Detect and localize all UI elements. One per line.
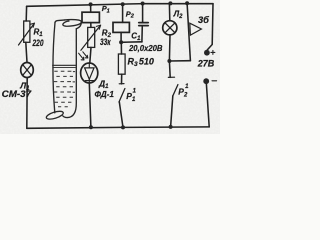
resistor R1 body bbox=[24, 21, 30, 42]
photodiode D1 bbox=[81, 63, 98, 83]
wire node to external arrow line bbox=[169, 60, 190, 62]
resistor R1 arrow bbox=[19, 24, 34, 45]
wire R1 to lamp L1 bbox=[26, 42, 27, 62]
wire P2 coil to node bbox=[120, 32, 122, 42]
node dot D1 bottom bbox=[89, 125, 93, 129]
svg-text:СМ-37: СМ-37 bbox=[2, 89, 32, 99]
node dot external branch on top bus bbox=[185, 1, 189, 5]
wire P1 coil to R2 bbox=[90, 23, 92, 28]
wire junction to R3 bbox=[120, 42, 122, 54]
wire top bus bbox=[27, 4, 213, 7]
resistor R2 arrow bbox=[81, 26, 100, 50]
terminal + 27V bbox=[204, 50, 210, 56]
node dot P1.1 bottom bbox=[121, 125, 125, 129]
external connection arrow 3b bbox=[190, 23, 202, 35]
relay contact P2.1 blade bbox=[173, 85, 178, 97]
relay contact P1.1 blade bbox=[119, 89, 125, 103]
wire contact P2.1 to bottom bus bbox=[171, 96, 173, 127]
node dot L2/P2.1 junction bbox=[167, 59, 171, 63]
resistor R3 body bbox=[118, 54, 125, 74]
node dot above C1 bbox=[141, 2, 145, 6]
node dot above relay coil P1 bbox=[89, 2, 93, 6]
liquid surface bbox=[53, 64, 76, 66]
paper grain bbox=[0, 0, 220, 134]
capacitor C1 bbox=[139, 22, 148, 24]
lamp L2 bbox=[163, 21, 177, 35]
svg-text:20,0х20В: 20,0х20В bbox=[128, 43, 162, 53]
wire to C1 bbox=[142, 4, 144, 23]
svg-text:ФД-1: ФД-1 bbox=[95, 89, 115, 99]
wire - terminal to bottom bus bbox=[206, 84, 209, 127]
resistor R2 body bbox=[88, 27, 95, 47]
svg-text:220: 220 bbox=[32, 38, 44, 48]
wire lamp L2 to node bbox=[168, 35, 171, 61]
node dot above relay coil P2 bbox=[121, 2, 125, 6]
relay coil P2 bbox=[113, 22, 129, 32]
vessel with liquid bbox=[45, 20, 81, 121]
wire right border to + terminal bbox=[207, 4, 213, 50]
terminal - bbox=[203, 78, 209, 84]
wire C1 to bottom node bbox=[141, 26, 143, 42]
node dot P2/C1/R3 junction bbox=[119, 40, 123, 44]
wire to lamp L2 bbox=[168, 4, 170, 21]
svg-text:33к: 33к bbox=[100, 37, 111, 47]
wire D1 to bottom bus bbox=[89, 83, 91, 127]
wire to P2 coil bbox=[122, 4, 124, 22]
node dot P2.1 bottom bbox=[169, 125, 173, 129]
wire left border top bbox=[25, 6, 27, 21]
wire lamp L1 to bottom bus bbox=[26, 78, 28, 129]
node dot above lamp L2 bbox=[168, 1, 172, 5]
svg-text:R3510: R3510 bbox=[128, 57, 154, 69]
svg-text:27В: 27В bbox=[197, 59, 215, 69]
wire to P1 coil bbox=[90, 4, 92, 12]
wire contact P1.1 to bottom bus bbox=[119, 102, 123, 128]
relay contact P2.1 upper lead bbox=[168, 61, 171, 77]
wire R3 to contact P1.1 bbox=[121, 74, 123, 84]
wire R2 to photodiode D1 bbox=[90, 47, 91, 63]
svg-text:3б: 3б bbox=[198, 15, 209, 25]
relay coil P1 bbox=[82, 12, 99, 22]
light arrows into D1 bbox=[79, 53, 84, 60]
liquid dashes bbox=[54, 71, 75, 107]
wire external branch bbox=[187, 3, 190, 61]
wire bottom bus bbox=[27, 127, 209, 128]
lamp L1 bbox=[21, 63, 34, 78]
wire junction to C1 bottom bbox=[121, 41, 142, 44]
